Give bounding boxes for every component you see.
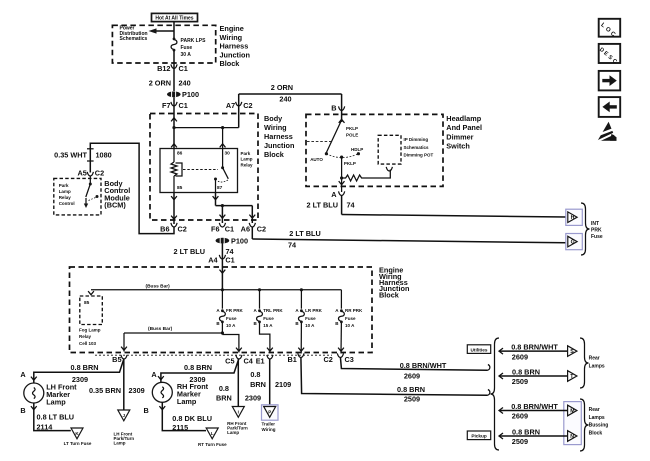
- svg-text:RR PRK: RR PRK: [345, 308, 363, 313]
- svg-text:0.8 LT BLU: 0.8 LT BLU: [37, 412, 75, 421]
- svg-text:Block: Block: [220, 59, 241, 68]
- svg-text:Switch: Switch: [446, 142, 470, 151]
- svg-text:Headlamp: Headlamp: [446, 114, 481, 123]
- svg-text:BRN: BRN: [250, 380, 266, 389]
- svg-text:Engine: Engine: [220, 24, 244, 33]
- svg-text:C1: C1: [225, 255, 234, 264]
- svg-text:A: A: [331, 190, 337, 199]
- svg-text:Pickup: Pickup: [471, 434, 487, 439]
- svg-text:S: S: [570, 349, 574, 355]
- svg-text:FR PRK: FR PRK: [226, 308, 244, 313]
- svg-text:B12: B12: [157, 64, 170, 73]
- svg-text:2 LT BLU: 2 LT BLU: [289, 229, 320, 238]
- svg-text:IP Dimming: IP Dimming: [404, 137, 429, 142]
- svg-text:H: H: [571, 215, 575, 221]
- svg-text:B: B: [295, 321, 299, 326]
- svg-text:0.8 DK BLU: 0.8 DK BLU: [172, 414, 212, 423]
- svg-text:L: L: [211, 431, 214, 436]
- svg-text:Harness: Harness: [220, 42, 249, 51]
- svg-text:Schematics: Schematics: [120, 36, 148, 42]
- svg-text:Rear: Rear: [589, 407, 600, 413]
- svg-text:Wiring: Wiring: [220, 33, 243, 42]
- svg-text:PKLP: PKLP: [344, 161, 356, 166]
- svg-text:A4: A4: [208, 255, 218, 264]
- svg-text:0.35 WHT: 0.35 WHT: [54, 150, 87, 159]
- svg-text:0.8 BRN: 0.8 BRN: [512, 427, 540, 436]
- svg-text:Park: Park: [59, 183, 69, 188]
- svg-text:Lamp: Lamp: [241, 157, 253, 162]
- svg-text:B: B: [335, 321, 339, 326]
- svg-text:74: 74: [347, 201, 356, 210]
- svg-text:BRN: BRN: [216, 393, 232, 402]
- svg-text:2309: 2309: [129, 386, 145, 395]
- svg-text:(BCM): (BCM): [104, 201, 126, 210]
- svg-text:C1: C1: [179, 101, 188, 110]
- svg-text:I: I: [238, 409, 239, 414]
- svg-text:30: 30: [225, 151, 231, 157]
- svg-text:PARK LPS: PARK LPS: [181, 38, 207, 44]
- svg-text:Lamp: Lamp: [59, 189, 71, 194]
- svg-text:Park: Park: [241, 151, 251, 156]
- svg-text:PRK: PRK: [591, 228, 602, 234]
- svg-text:Fuse: Fuse: [345, 316, 356, 321]
- svg-text:10 A: 10 A: [305, 323, 315, 328]
- svg-text:240: 240: [279, 95, 291, 104]
- svg-text:RT Turn Fuse: RT Turn Fuse: [198, 442, 227, 447]
- svg-text:A: A: [216, 308, 220, 313]
- svg-text:A: A: [295, 308, 299, 313]
- svg-text:Block: Block: [264, 150, 285, 159]
- svg-text:0.35 BRN: 0.35 BRN: [89, 386, 121, 395]
- svg-text:M: M: [570, 409, 574, 415]
- svg-text:B: B: [144, 406, 149, 415]
- svg-text:0.8 BRN: 0.8 BRN: [184, 363, 212, 372]
- svg-text:Fuse: Fuse: [263, 316, 274, 321]
- svg-text:0.8 BRN/WHT: 0.8 BRN/WHT: [511, 402, 558, 411]
- svg-text:POLE: POLE: [346, 132, 358, 137]
- svg-text:P100: P100: [231, 236, 248, 245]
- svg-text:Lamp: Lamp: [114, 441, 126, 446]
- svg-text:C2: C2: [178, 224, 187, 233]
- svg-text:15 A: 15 A: [263, 323, 273, 328]
- svg-text:0.8 BRN/WHT: 0.8 BRN/WHT: [511, 343, 558, 352]
- svg-text:A: A: [335, 308, 339, 313]
- svg-text:Dimmer: Dimmer: [446, 132, 473, 141]
- svg-text:2509: 2509: [404, 395, 420, 404]
- svg-text:A: A: [253, 308, 257, 313]
- svg-text:Hot At All Times: Hot At All Times: [155, 16, 193, 22]
- svg-text:Fuse: Fuse: [226, 316, 237, 321]
- svg-text:Bussing: Bussing: [589, 423, 609, 429]
- svg-text:(Buss Bar): (Buss Bar): [146, 284, 171, 290]
- svg-text:Rear: Rear: [589, 356, 600, 362]
- svg-text:0.8 BRN: 0.8 BRN: [512, 367, 540, 376]
- svg-text:Block: Block: [589, 430, 603, 436]
- svg-text:86: 86: [177, 151, 183, 157]
- svg-text:LT Turn Fuse: LT Turn Fuse: [64, 441, 92, 446]
- svg-text:G: G: [571, 240, 575, 246]
- svg-text:87: 87: [217, 185, 223, 191]
- svg-text:C1: C1: [179, 64, 188, 73]
- svg-text:2609: 2609: [404, 372, 420, 381]
- svg-text:B5: B5: [112, 355, 121, 364]
- svg-text:85: 85: [84, 300, 90, 306]
- svg-text:F7: F7: [162, 101, 171, 110]
- svg-text:240: 240: [179, 79, 191, 88]
- svg-text:Block: Block: [379, 290, 400, 299]
- svg-text:C2: C2: [243, 101, 252, 110]
- svg-text:B1: B1: [288, 355, 297, 364]
- svg-text:N: N: [570, 434, 574, 440]
- svg-text:LR PRK: LR PRK: [305, 308, 323, 313]
- svg-text:2115: 2115: [172, 423, 188, 432]
- svg-text:Lamps: Lamps: [589, 415, 605, 421]
- svg-text:PKLP: PKLP: [346, 126, 358, 131]
- svg-text:Junction: Junction: [264, 141, 294, 150]
- svg-text:Lamp: Lamp: [227, 430, 239, 435]
- svg-text:HDLP: HDLP: [351, 147, 363, 152]
- svg-text:TRL PRK: TRL PRK: [263, 308, 283, 313]
- svg-text:C2: C2: [257, 224, 266, 233]
- svg-text:F6: F6: [211, 224, 220, 233]
- svg-text:C2: C2: [324, 355, 333, 364]
- svg-text:0.8: 0.8: [250, 370, 260, 379]
- svg-text:30 A: 30 A: [181, 52, 192, 58]
- svg-text:0.8 BRN/WHT: 0.8 BRN/WHT: [400, 361, 447, 370]
- svg-text:C1: C1: [225, 224, 234, 233]
- svg-text:E1: E1: [256, 357, 265, 366]
- svg-text:2109: 2109: [275, 380, 291, 389]
- svg-text:Fuse: Fuse: [591, 234, 603, 240]
- svg-text:Cell 103: Cell 103: [79, 341, 97, 346]
- svg-text:Harness: Harness: [264, 132, 293, 141]
- svg-text:Junction: Junction: [220, 50, 250, 59]
- svg-text:B6: B6: [160, 224, 169, 233]
- svg-text:And Panel: And Panel: [446, 123, 482, 132]
- svg-text:2 LT BLU: 2 LT BLU: [307, 201, 338, 210]
- svg-text:2509: 2509: [512, 377, 528, 386]
- svg-text:Relay: Relay: [79, 334, 92, 339]
- svg-text:1080: 1080: [96, 150, 112, 159]
- svg-text:2 LT BLU: 2 LT BLU: [174, 247, 205, 256]
- svg-text:2114: 2114: [37, 423, 54, 432]
- svg-text:Fuse: Fuse: [305, 316, 316, 321]
- svg-text:AUTO: AUTO: [310, 157, 323, 162]
- svg-text:Fog Lamp: Fog Lamp: [79, 327, 101, 332]
- svg-text:0.8 BRN: 0.8 BRN: [397, 385, 425, 394]
- svg-text:C: C: [611, 58, 618, 65]
- svg-text:Fuse: Fuse: [181, 45, 193, 51]
- svg-text:85: 85: [177, 185, 183, 191]
- svg-text:A6: A6: [241, 224, 250, 233]
- svg-text:Relay: Relay: [241, 162, 254, 167]
- svg-text:2609: 2609: [512, 352, 528, 361]
- svg-text:Dimming POT: Dimming POT: [404, 153, 434, 158]
- svg-text:B: B: [331, 104, 336, 113]
- svg-text:A5: A5: [77, 168, 86, 177]
- svg-text:C4: C4: [244, 357, 254, 366]
- svg-text:B: B: [216, 321, 220, 326]
- svg-text:0.8: 0.8: [219, 384, 229, 393]
- svg-text:Lamps: Lamps: [589, 363, 605, 369]
- svg-text:INT: INT: [591, 221, 599, 227]
- svg-text:(Buss Bar): (Buss Bar): [148, 326, 173, 332]
- svg-text:Utilities: Utilities: [471, 347, 488, 352]
- svg-text:Body: Body: [264, 114, 283, 123]
- svg-text:Wiring: Wiring: [264, 123, 287, 132]
- svg-text:C3: C3: [345, 355, 354, 364]
- svg-text:10 A: 10 A: [345, 323, 355, 328]
- svg-text:A7: A7: [226, 101, 235, 110]
- svg-text:C5: C5: [225, 357, 234, 366]
- svg-text:B: B: [253, 321, 257, 326]
- svg-text:B: B: [20, 406, 25, 415]
- svg-text:P: P: [268, 409, 271, 414]
- svg-text:Trailer: Trailer: [262, 422, 276, 427]
- svg-text:Control: Control: [59, 201, 75, 206]
- svg-text:2609: 2609: [512, 412, 528, 421]
- svg-text:2 ORN: 2 ORN: [271, 83, 293, 92]
- svg-text:A: A: [20, 370, 26, 379]
- svg-text:10 A: 10 A: [226, 323, 236, 328]
- svg-text:74: 74: [288, 240, 297, 249]
- svg-text:2309: 2309: [245, 393, 261, 402]
- svg-text:Relay: Relay: [59, 195, 72, 200]
- svg-text:2 ORN: 2 ORN: [149, 79, 171, 88]
- svg-text:2509: 2509: [512, 437, 528, 446]
- svg-text:C2: C2: [95, 168, 104, 177]
- svg-text:Wiring: Wiring: [262, 427, 276, 432]
- svg-text:Schematics: Schematics: [404, 145, 430, 150]
- svg-text:Lamp: Lamp: [46, 398, 66, 407]
- svg-text:P100: P100: [182, 90, 199, 99]
- svg-text:A: A: [151, 370, 157, 379]
- svg-text:0.8 BRN: 0.8 BRN: [71, 363, 99, 372]
- svg-text:Lamp: Lamp: [177, 397, 197, 406]
